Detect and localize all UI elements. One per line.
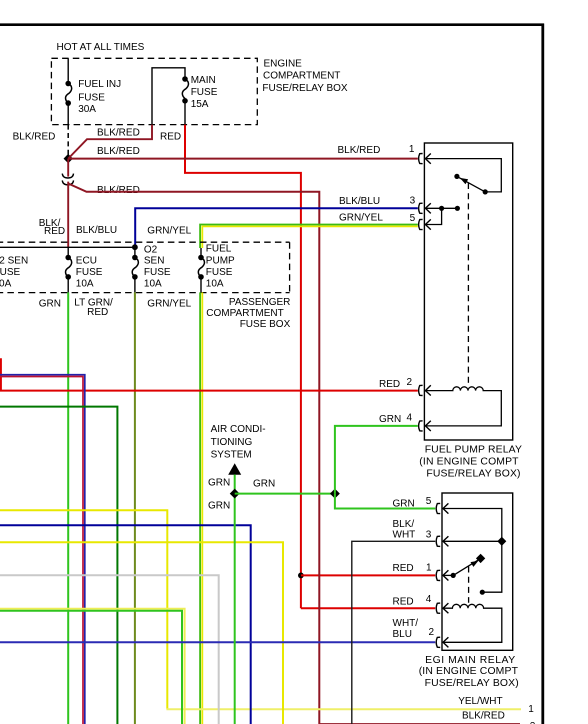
wire black O2 sensor bus — [0, 246, 135, 248]
svg-text:BLK/RED: BLK/RED — [97, 185, 140, 196]
svg-text:BLK/RED: BLK/RED — [97, 127, 140, 138]
svg-text:FUSE/RELAY BOX: FUSE/RELAY BOX — [262, 83, 348, 94]
svg-text:FUSE: FUSE — [144, 267, 171, 278]
pin 1 EGI connector — [436, 570, 440, 580]
svg-text:FUSE: FUSE — [0, 267, 21, 278]
svg-text:PASSENGER: PASSENGER — [229, 297, 291, 308]
wire RED to EGI relay pin 1 — [301, 574, 435, 576]
wire YEL (turns to YEL/WHT bottom pin 1) — [0, 510, 167, 709]
wire GRN/YEL pair from fuel pump fuse down — [199, 292, 201, 724]
node switch contact dot — [483, 189, 488, 194]
svg-text:2: 2 — [429, 627, 435, 638]
svg-text:COMPARTMENT: COMPARTMENT — [206, 308, 283, 319]
svg-text:BLK/BLU: BLK/BLU — [76, 225, 117, 236]
passenger compartment fuse box (dashed) — [0, 241, 290, 243]
svg-text:RED: RED — [393, 597, 414, 608]
svg-text:5: 5 — [426, 496, 432, 507]
fuse ECU 10A — [67, 247, 69, 257]
svg-text:FUEL: FUEL — [206, 244, 232, 255]
wire GRN dark — [0, 407, 117, 724]
wire BLK/WHT gray — [0, 575, 219, 724]
wire BLK/WHT to EGI pin 3 — [352, 541, 435, 724]
wire LT GRN/RED from O2 fuse down — [134, 292, 136, 724]
node switch pivot dot — [454, 174, 459, 179]
wire fuel inj fuse down to box edge — [67, 103, 69, 125]
svg-text:WHT/: WHT/ — [393, 618, 419, 629]
svg-text:1: 1 — [409, 144, 415, 155]
wire GRN down to EGI relay pin 5 — [335, 494, 435, 509]
switch arrowhead — [460, 178, 468, 184]
svg-text:GRN: GRN — [39, 298, 61, 309]
svg-text:FUSE/RELAY BOX): FUSE/RELAY BOX) — [425, 678, 519, 689]
engine compartment fuse/relay box (dashed) — [51, 58, 257, 124]
svg-text:3: 3 — [426, 529, 432, 540]
svg-text:EGI MAIN RELAY: EGI MAIN RELAY — [425, 655, 516, 666]
node contact dot EGI lower — [480, 590, 485, 595]
relay coil EGI — [443, 604, 502, 642]
wire YEL second — [0, 542, 283, 724]
node GRN junction dot right — [330, 489, 340, 499]
switch arm fuel pump relay — [457, 176, 485, 192]
svg-text:BLU: BLU — [393, 629, 412, 640]
pin 2 fuel pump relay — [419, 385, 423, 395]
node RED junction at EGI pin1 — [298, 573, 304, 579]
EGI MAIN RELAY box — [442, 493, 513, 650]
switch arm EGI — [453, 560, 478, 576]
wire black part inside box to MAIN fuse top — [152, 68, 185, 125]
pin 4 fuel pump relay — [419, 421, 423, 431]
svg-text:RED: RED — [87, 307, 108, 318]
svg-text:AIR CONDI-: AIR CONDI- — [211, 424, 266, 435]
node diamond junction EGI — [497, 537, 506, 546]
wire BLK/RED branch to EGI area vertical — [68, 184, 520, 724]
svg-text:GRN/YEL: GRN/YEL — [339, 212, 383, 223]
dashed actuation link fuel pump relay — [467, 183, 469, 386]
svg-text:10A: 10A — [0, 279, 12, 290]
arrow to air conditioning system — [228, 463, 241, 475]
pin 5 EGI connector — [436, 503, 440, 513]
wire internal pin5 up to pin3 — [425, 208, 441, 224]
svg-text:RED: RED — [160, 131, 181, 142]
wire from box top to fuel inj fuse — [67, 58, 69, 83]
wire GRN from ECU fuse down — [67, 292, 69, 724]
svg-text:WHT: WHT — [393, 530, 416, 541]
svg-text:10A: 10A — [76, 279, 94, 290]
svg-text:PUMP: PUMP — [206, 255, 235, 266]
pin 4 EGI connector — [436, 603, 440, 613]
svg-text:10A: 10A — [144, 279, 162, 290]
wire internal EGI pin5 down right side — [443, 509, 502, 593]
svg-text:HOT AT ALL TIMES: HOT AT ALL TIMES — [57, 42, 145, 53]
svg-text:5: 5 — [410, 213, 416, 224]
wire YEL/WHT to bottom pin 1 — [166, 708, 521, 710]
svg-text:ENGINE: ENGINE — [264, 59, 303, 70]
svg-text:FUSE: FUSE — [78, 93, 105, 104]
svg-text:SYSTEM: SYSTEM — [211, 449, 252, 460]
svg-text:MAIN: MAIN — [191, 75, 216, 86]
svg-text:FUSE/RELAY BOX): FUSE/RELAY BOX) — [426, 468, 520, 479]
svg-text:RED: RED — [393, 563, 414, 574]
relay coil fuel pump — [425, 387, 501, 426]
svg-text:RED: RED — [379, 379, 400, 390]
wire GRN stem from A/C arrow down — [234, 475, 236, 724]
wire YEL pale — [0, 609, 185, 724]
pin 3 EGI connector — [436, 536, 440, 546]
svg-text:GRN: GRN — [379, 414, 401, 425]
wire MAIN fuse bottom black to box edge — [184, 101, 186, 125]
svg-text:TIONING: TIONING — [211, 437, 253, 448]
node switch pivot EGI — [451, 573, 456, 578]
svg-text:ECU: ECU — [76, 255, 97, 266]
svg-text:FUSE: FUSE — [206, 267, 233, 278]
svg-text:GRN/YEL: GRN/YEL — [147, 226, 191, 237]
svg-text:FUSE: FUSE — [76, 267, 103, 278]
pin 2 EGI connector — [436, 637, 440, 647]
svg-text:(IN ENGINE COMPT: (IN ENGINE COMPT — [419, 666, 519, 677]
page border right — [541, 24, 544, 724]
inline connector symbol — [62, 174, 73, 178]
svg-text:GRN: GRN — [393, 498, 415, 509]
svg-text:1: 1 — [528, 704, 534, 715]
svg-text:O2 SEN: O2 SEN — [0, 255, 28, 266]
wire WHT/BLU to EGI pin 2 — [0, 641, 435, 643]
svg-text:FUEL INJ: FUEL INJ — [78, 79, 121, 90]
svg-text:3: 3 — [410, 195, 416, 206]
svg-text:YEL/WHT: YEL/WHT — [458, 696, 502, 707]
svg-text:BLK/RED: BLK/RED — [97, 146, 140, 157]
page border top — [0, 23, 544, 26]
wire BLK/BLU lower — [0, 525, 251, 724]
fuse O2 SEN 10A (middle) — [134, 247, 136, 257]
svg-text:RED: RED — [44, 226, 65, 237]
svg-text:4: 4 — [407, 412, 413, 423]
wire RED to fuel pump relay pin 2 — [1, 358, 418, 390]
wire dashed segment below box — [67, 125, 69, 156]
fuse MAIN 15A — [182, 76, 188, 82]
wire RED/BLU pair (red inner) — [0, 377, 83, 724]
wire BLK/BLU to fuel pump relay pin 3 — [135, 208, 418, 247]
svg-text:BLK/RED: BLK/RED — [462, 710, 505, 721]
wire internal EGI pin1 — [443, 574, 453, 576]
node GRN junction dot left — [230, 489, 240, 499]
svg-text:SEN: SEN — [144, 255, 165, 266]
FUEL PUMP RELAY box — [424, 143, 512, 440]
wire RED main run — [185, 125, 301, 609]
svg-text:GRN/YEL: GRN/YEL — [147, 298, 191, 309]
svg-text:BLK/: BLK/ — [393, 519, 415, 530]
node black dot at O2 bus junction — [132, 244, 138, 250]
svg-text:GRN: GRN — [208, 500, 230, 511]
svg-text:FUSE BOX: FUSE BOX — [240, 319, 291, 330]
wire internal pin1 to switch contact — [425, 159, 501, 192]
wire internal pin3 line with contacts — [425, 207, 457, 209]
wire RED/BLU pair (blue outer) — [0, 375, 85, 724]
wire BLK/RED to fuel pump relay pin 1 — [68, 158, 418, 160]
svg-text:(IN ENGINE COMPT: (IN ENGINE COMPT — [419, 457, 519, 468]
svg-text:2: 2 — [407, 377, 413, 388]
svg-text:4: 4 — [426, 594, 432, 605]
fuse FUEL PUMP 10A — [200, 248, 202, 258]
fuse FUEL INJ 30A — [65, 81, 71, 87]
svg-text:FUSE: FUSE — [191, 87, 218, 98]
svg-text:COMPARTMENT: COMPARTMENT — [263, 71, 340, 82]
svg-text:FUEL PUMP RELAY: FUEL PUMP RELAY — [425, 445, 522, 456]
svg-text:BLK/RED: BLK/RED — [338, 145, 381, 156]
switch arrowhead diamond EGI — [476, 554, 485, 563]
svg-text:30A: 30A — [78, 104, 96, 115]
switch arm chevron EGI — [471, 561, 479, 567]
wire BLK/RED riser to MAIN fuse (maroon part) — [68, 125, 152, 159]
wire maroon between dot and connector — [67, 159, 69, 177]
svg-text:GRN: GRN — [253, 478, 275, 489]
wire GRN horizontal — [235, 493, 335, 495]
svg-text:1: 1 — [426, 563, 432, 574]
wire RED to EGI relay pin 4 — [301, 607, 435, 609]
svg-text:GRN: GRN — [208, 478, 230, 489]
node junction dot — [64, 154, 73, 163]
wire internal EGI pin3 — [443, 540, 502, 542]
svg-text:BLK/RED: BLK/RED — [13, 132, 56, 143]
wire maroon below connector down to fuse box — [67, 182, 69, 248]
wire GRN/YEL pair to fuel pump relay pin 5 — [200, 225, 418, 249]
svg-text:15A: 15A — [191, 99, 209, 110]
svg-text:O2: O2 — [144, 244, 158, 255]
wire GRN up to fuel pump relay pin 4 — [335, 426, 418, 494]
svg-text:BLK/BLU: BLK/BLU — [339, 196, 380, 207]
svg-text:10A: 10A — [206, 279, 224, 290]
wire GRN third — [0, 611, 182, 724]
dashed actuation link EGI — [468, 567, 470, 603]
